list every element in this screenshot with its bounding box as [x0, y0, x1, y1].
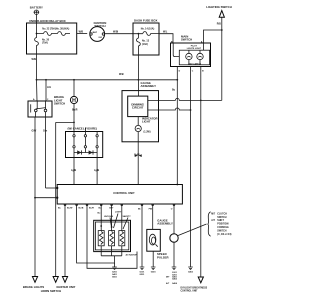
wire jog into control unit left pin 1 — [46, 187, 57, 189]
brake light switch — [28, 95, 65, 117]
svg-text:SWITCH: SWITCH — [181, 38, 192, 42]
pin circle control unit left 1 — [56, 187, 58, 189]
main switch bottom pins D C B — [179, 71, 205, 73]
pilot light bulb 1 — [186, 53, 192, 59]
wire daylight control feed down right side — [200, 67, 202, 278]
fuse No.30 (70A) vertical — [35, 34, 50, 55]
node fuse 13 tap — [138, 33, 140, 35]
wire horizontal branch y76 — [37, 79, 178, 81]
svg-text:W/Bl: W/Bl — [113, 31, 119, 33]
leader line to annotation — [178, 224, 207, 236]
ground G1 — [112, 263, 118, 279]
wire dimming out 2 — [148, 108, 191, 110]
svg-text:DASH FUSE BOX: DASH FUSE BOX — [134, 19, 157, 23]
svg-text:(1.2W): (1.2W) — [144, 132, 151, 134]
resistor R2 (vacuum) — [109, 231, 115, 246]
wire H to diode box, label Bu/R — [72, 104, 78, 123]
control unit bottom pin labels — [58, 208, 173, 211]
fuse No.14 (10A) — [133, 27, 159, 35]
svg-text:LIGHT: LIGHT — [115, 212, 122, 214]
main switch — [171, 34, 211, 66]
gauge assembly (speed pulser) label — [157, 218, 173, 225]
wire fuse14 to main switch, label W/L — [159, 31, 173, 43]
svg-text:H: H — [72, 98, 76, 104]
svg-text:Lg/B: Lg/B — [71, 170, 76, 172]
wire pin Bk to ground G3 — [141, 204, 143, 263]
svg-text:P/B: P/B — [149, 209, 153, 211]
wire battery feed inside box — [36, 23, 38, 34]
resistor R1 (light) — [98, 231, 104, 246]
wire connector to ground G4 — [173, 242, 175, 263]
clutch/shift inline connector — [170, 234, 178, 242]
wire bulb down to control unit, label Br/W — [134, 132, 140, 185]
svg-text:Bu/B: Bu/B — [79, 208, 84, 210]
dash fuse box — [133, 19, 159, 56]
svg-text:No. 13: No. 13 — [142, 41, 150, 43]
svg-text:No. 14 (10A): No. 14 (10A) — [141, 27, 155, 30]
svg-text:Bu/R: Bu/R — [72, 110, 78, 112]
fuse No.13 (10A) vertical — [137, 34, 150, 55]
speed pulser coil symbol — [149, 234, 157, 246]
svg-text:R/B: R/B — [217, 24, 221, 26]
svg-text:(W/ CANCEL FIGURE): (W/ CANCEL FIGURE) — [68, 126, 98, 130]
node trunk branch — [36, 79, 38, 81]
svg-text:No. 22 (70A): No. 22 (70A) — [42, 27, 56, 30]
wire pin Bu/B loop under — [77, 204, 115, 263]
wire dimming out 1 with bridge — [148, 98, 222, 100]
arrow to igniter unit (1) — [53, 277, 58, 283]
wire brake switch pin A down, label Grn — [43, 117, 48, 188]
svg-text:CONSOLE: CONSOLE — [217, 227, 229, 229]
svg-text:LIGHTING SWITCH: LIGHTING SWITCH — [206, 5, 232, 9]
gauge assembly (cluster) — [122, 81, 159, 142]
svg-text:HORN SWITCH: HORN SWITCH — [41, 289, 61, 293]
svg-text:W/B: W/B — [32, 59, 37, 61]
wire branch into control unit left pin 2 — [35, 197, 57, 199]
svg-text:SWITCH: SWITCH — [217, 230, 227, 232]
svg-text:Bu/W: Bu/W — [67, 208, 72, 210]
node branch to connector H — [73, 79, 75, 81]
wire left trunk below relay box, label W/B — [32, 54, 38, 101]
wire branch to main switch pin A — [204, 30, 222, 43]
svg-text:CONTROL UNIT: CONTROL UNIT — [181, 290, 199, 292]
node branch to brake switch — [45, 79, 47, 81]
wire main switch pin D down to control unit — [172, 67, 177, 185]
wire pin P/B to speed pulser — [152, 204, 154, 229]
fuse No.38 (60A) — [53, 27, 70, 35]
node resistor feeds — [100, 225, 102, 227]
wire pin Bu/R loop under — [87, 204, 137, 268]
wire battery to relay box — [35, 14, 37, 23]
wire pin Bk to resistor 3 — [121, 204, 123, 231]
wire branch down to brake switch pin, label LtG — [46, 80, 51, 101]
svg-text:PULSER: PULSER — [157, 255, 169, 259]
wire pin GRY to resistor 2 — [111, 204, 113, 231]
connector H — [70, 96, 77, 104]
wires pilot light internal — [173, 43, 203, 65]
svg-text:ACTUATOR: ACTUATOR — [126, 254, 138, 257]
svg-text:No. 38 (60A): No. 38 (60A) — [56, 27, 70, 30]
svg-text:BATTERY: BATTERY — [30, 6, 43, 10]
fuse No.22 (70A) — [37, 27, 56, 35]
brake switch contacts — [31, 101, 47, 117]
svg-text:Grn: Grn — [43, 131, 48, 133]
pilot light bulb 2 — [197, 53, 203, 59]
arrow to brake lights — [23, 277, 44, 289]
svg-text:SHIFT: SHIFT — [217, 220, 224, 222]
battery B1 — [30, 6, 43, 15]
resistor block outer box (double) — [94, 220, 131, 251]
wire lighting switch down, label R/B — [217, 17, 222, 100]
resistor block labels with leaders — [98, 212, 132, 229]
speed pulser label — [157, 252, 169, 259]
svg-text:(C, D3 or D4): (C, D3 or D4) — [217, 233, 231, 236]
control unit — [57, 185, 182, 205]
svg-text:Lg/B: Lg/B — [94, 170, 99, 172]
wire main switch pin C down to ground — [190, 67, 192, 264]
wire fuse13 down to gauge assembly — [137, 55, 139, 91]
ground G5 (main switch pin C) — [188, 263, 194, 274]
svg-text:W/B: W/B — [79, 32, 84, 34]
diode D1 — [74, 150, 97, 154]
svg-text:Br/W: Br/W — [134, 155, 140, 157]
wire pin O to clutch connector — [173, 204, 175, 234]
wire down to connector H — [73, 80, 75, 97]
speed pulser box — [147, 229, 161, 251]
svg-text:M/T: M/T — [211, 214, 216, 216]
svg-text:LIGHT: LIGHT — [142, 120, 151, 124]
annotation M/T A/T text block — [208, 212, 232, 236]
diode D2 — [89, 150, 93, 154]
svg-text:ASSEMBLY: ASSEMBLY — [141, 84, 157, 88]
svg-text:W/B: W/B — [119, 74, 124, 76]
wire dimming to bulb — [137, 117, 139, 126]
svg-text:LtG: LtG — [47, 86, 51, 89]
wire pin Bu/W to igniter arrow — [64, 204, 66, 277]
svg-text:W/L: W/L — [163, 31, 168, 33]
svg-text:SWITCH: SWITCH — [217, 217, 227, 219]
wire diode box right out to control unit, label Lg/B — [94, 158, 99, 185]
indicator bulb (1.2W) — [135, 125, 151, 133]
wire branch brake switch to diode wire — [56, 122, 74, 131]
svg-text:UNDER-HOOD RELAY BOX: UNDER-HOOD RELAY BOX — [29, 19, 66, 23]
svg-text:(14V 3.4W×2): (14V 3.4W×2) — [188, 62, 201, 65]
wire feed into gauge assembly — [137, 91, 139, 97]
dimming circuit — [128, 96, 148, 117]
node dimming out 2 to pin D wire — [190, 109, 192, 111]
svg-text:VACUUM: VACUUM — [104, 215, 113, 218]
inline connector symbol on wire — [135, 154, 142, 157]
svg-text:CONTROL UNIT: CONTROL UNIT — [113, 191, 135, 195]
node dimming out 1 to pin C wire — [200, 100, 202, 102]
svg-text:SAFETY: SAFETY — [123, 215, 132, 218]
wires resistor bottoms to common — [101, 246, 122, 264]
svg-text:BAT: BAT — [93, 31, 98, 34]
pin circle control unit left 2 — [56, 197, 58, 199]
pilot lights inner box — [179, 45, 209, 65]
control unit bottom pin circles — [64, 204, 175, 206]
svg-text:CLUTCH: CLUTCH — [217, 214, 227, 216]
svg-text:ASSEMBLY: ASSEMBLY — [157, 222, 173, 226]
svg-text:LIGHTS LIGHT: LIGHTS LIGHT — [187, 48, 202, 50]
indicator light label — [142, 116, 158, 123]
svg-text:No. 30: No. 30 — [42, 40, 50, 42]
svg-text:Bu/R: Bu/R — [89, 208, 94, 210]
wire ignition to dash fuse box, label W/Bl — [105, 31, 133, 33]
svg-text:(10A): (10A) — [142, 43, 148, 46]
svg-text:(70A): (70A) — [42, 42, 48, 45]
ground G4 — [166, 263, 178, 285]
svg-text:CIRCUIT: CIRCUIT — [132, 106, 144, 110]
lighting switch off-page arrow — [206, 5, 232, 17]
ignition switch — [90, 21, 107, 42]
svg-text:A/T: A/T — [211, 219, 215, 222]
node lighting branch — [221, 29, 223, 31]
svg-text:POSITION: POSITION — [217, 224, 228, 226]
node pin D at control unit — [176, 184, 178, 186]
arrow to igniter unit (2) — [41, 277, 76, 293]
wire relay box to ignition switch, label W/B — [77, 32, 88, 34]
wire brake switch pin B down, label G/W — [32, 117, 37, 277]
ground G3 — [140, 263, 146, 276]
diode box label (w/ cancel feature) — [66, 126, 103, 157]
node brake lights branch — [34, 197, 36, 199]
under-hood relay box — [27, 19, 77, 54]
resistor R3 (safety) — [119, 231, 125, 246]
wire pin Bu to resistor 1 — [100, 204, 102, 231]
svg-text:DAYLIGHT BRIGHTNESS: DAYLIGHT BRIGHTNESS — [181, 286, 208, 289]
arrow to daylight brightness control unit — [181, 277, 208, 292]
diode box pins — [73, 128, 98, 158]
wire diode box left out to control unit, label Lg/B — [71, 158, 76, 185]
node bus at fuses — [36, 33, 38, 35]
svg-text:SWITCH: SWITCH — [54, 102, 65, 106]
ground G2 (speed pulser) — [151, 263, 157, 274]
svg-text:G/W: G/W — [32, 131, 37, 133]
wire speed pulser to ground — [152, 251, 154, 263]
